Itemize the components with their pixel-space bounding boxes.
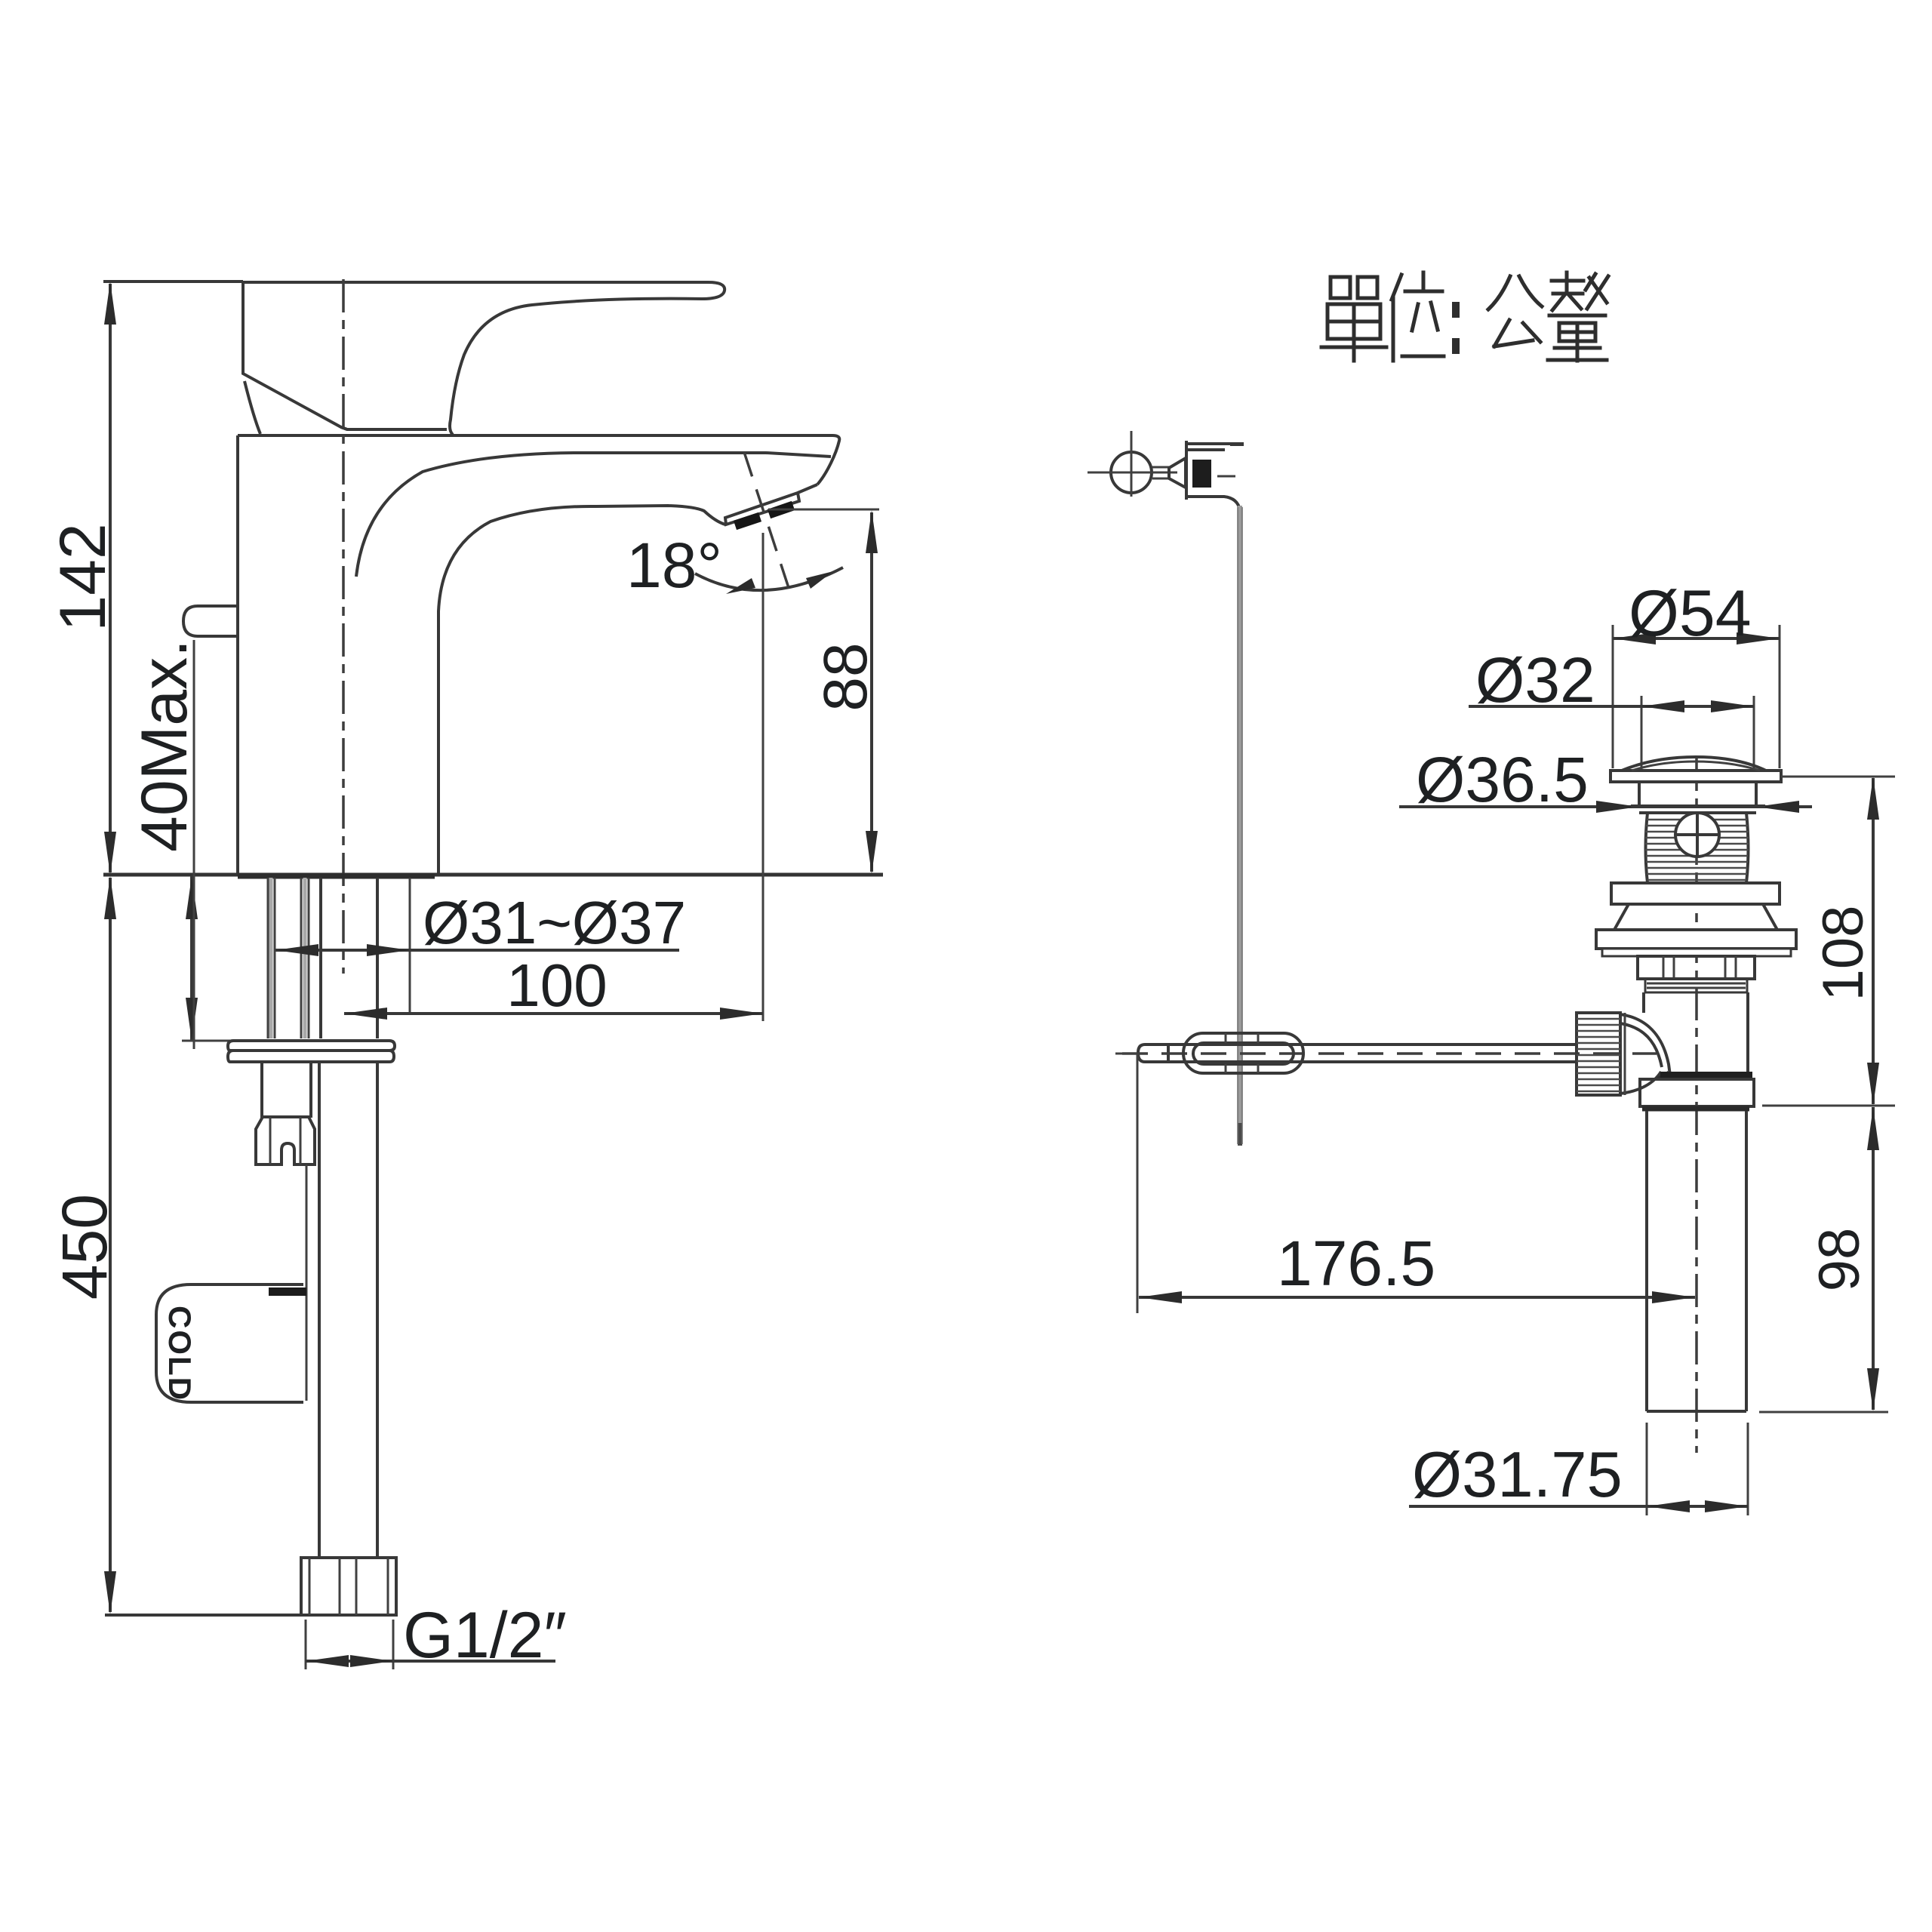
lever left edge and diagonal emphasized (243, 282, 347, 429)
cartridge dome arc under lever (245, 381, 260, 434)
svg-text:Ø36.5: Ø36.5 (1416, 744, 1589, 815)
drain neck (1639, 782, 1756, 806)
位 (1392, 275, 1401, 361)
Ø31.75 dimension line (1409, 1505, 1748, 1508)
pop-up cap dome (1622, 757, 1766, 771)
40Max tick at escutcheon level (182, 1040, 263, 1042)
Ø32 dimension line (1469, 705, 1754, 708)
tailpipe (1647, 1111, 1746, 1411)
dimension 142 arrow down (104, 832, 116, 875)
Ø31.75 arrow left (1647, 1500, 1690, 1512)
flange 2 (1611, 883, 1780, 904)
18 degree dimension arc (695, 568, 843, 590)
88 dimension line (870, 512, 873, 872)
counter / mounting surface line (103, 873, 883, 877)
G1/2 extension lines (306, 1620, 393, 1669)
svg-text:176.5: 176.5 (1277, 1228, 1435, 1299)
176.5 arrow left (1139, 1291, 1182, 1303)
knob crosshair (1088, 431, 1235, 497)
supply pipe walls (319, 1062, 377, 1558)
88 arrow down (866, 831, 878, 874)
G1/2 arrow left (306, 1655, 349, 1667)
公 (1488, 276, 1542, 309)
G1/2 dimension line (306, 1660, 555, 1663)
spout bevel face (798, 485, 817, 493)
svg-text:142: 142 (47, 523, 119, 632)
98 arrow up (1867, 1107, 1879, 1150)
Ø54 arrow left (1613, 632, 1656, 645)
knob stem (1152, 467, 1169, 478)
faucet base thick line (238, 874, 435, 879)
svg-text:Ø54: Ø54 (1629, 577, 1752, 650)
176.5 arrow right (1652, 1291, 1695, 1303)
108 top extension (1781, 776, 1895, 778)
tee bell housing (1620, 1014, 1670, 1094)
outlet projection extension line (762, 533, 764, 1021)
vertical lift rod (1238, 506, 1242, 1146)
Ø31~Ø37 arrow left (275, 944, 318, 956)
Ø31~Ø37 arrow right (367, 944, 410, 956)
176.5 dimension line (1139, 1296, 1695, 1299)
aerator outlet black slot (735, 506, 793, 525)
450 dimension line (109, 878, 112, 1612)
clevis ticks (1226, 1033, 1258, 1073)
18 deg arc arrow right (806, 571, 833, 589)
lift rod knob ball (1111, 452, 1152, 493)
100 dimension line (344, 1012, 763, 1015)
svg-text:98: 98 (1807, 1228, 1872, 1292)
main shank walls (321, 878, 377, 1038)
tee knurled nut (1577, 1013, 1620, 1095)
88 arrow up (866, 510, 878, 553)
stem cone (1169, 458, 1186, 488)
svg-text:18°: 18° (626, 530, 722, 601)
shank rod pair 2 (301, 878, 309, 1038)
Ø32 extension lines (1641, 696, 1754, 779)
coupling joint (1660, 1072, 1752, 1079)
ferrule black block (1192, 460, 1211, 488)
單 (1331, 277, 1377, 298)
Ø36.5 arrow right (pointing left) (1756, 801, 1799, 813)
svg-text:88: 88 (811, 642, 880, 711)
18 deg arc arrow left (726, 578, 755, 594)
mounting nut (256, 1117, 315, 1164)
釐 (1552, 272, 1583, 310)
screw head circle (1675, 813, 1719, 857)
dimension 142 arrow up (104, 281, 116, 325)
locknut (1638, 956, 1755, 979)
88 reference line at outlet (768, 509, 879, 511)
108 dimension line (1872, 778, 1875, 1104)
clevis slot (1193, 1043, 1294, 1064)
COLD tag (156, 1284, 303, 1402)
spout underside vertical to base (437, 717, 440, 875)
lever tail protrusion (183, 606, 238, 636)
100 arrow right (720, 1008, 763, 1020)
drain centerline (1695, 758, 1698, 1453)
Ø32 arrow right (1711, 700, 1754, 712)
svg-text:Ø32: Ø32 (1475, 645, 1595, 715)
450 arrow up (104, 876, 116, 919)
cord line along pipe (306, 1164, 308, 1401)
svg-text:Ø31~Ø37: Ø31~Ø37 (423, 889, 686, 956)
svg-text:100: 100 (506, 952, 607, 1019)
svg-text:108: 108 (1811, 906, 1875, 1001)
flange 3 wide (1596, 930, 1796, 949)
G1/2 connector nut (301, 1558, 396, 1615)
40Max arrow down (186, 998, 198, 1041)
176.5 extension line (1115, 1054, 1137, 1313)
98 arrow down (1867, 1368, 1879, 1411)
98 bottom tick (1759, 1411, 1888, 1414)
98 dimension line (1872, 1107, 1875, 1410)
right extension edge (escutcheon projection) (409, 878, 411, 1014)
450 arrow down (104, 1571, 116, 1614)
Ø54 extension lines (1613, 625, 1780, 768)
pull rod centerline (1122, 1052, 1657, 1055)
clevis outer (1183, 1033, 1303, 1073)
shank rod pair 1 (268, 878, 275, 1038)
108 arrow down (1867, 1063, 1879, 1106)
spout underside curve (438, 506, 725, 717)
Ø54 arrow right (1737, 632, 1780, 645)
horizontal pull rod left tip (1138, 1044, 1168, 1062)
cone skirt (1614, 904, 1777, 930)
Ø31.75 extension lines (1647, 1423, 1748, 1515)
40Max dimension line (190, 876, 193, 1041)
Ø54 dimension line (1613, 637, 1780, 640)
Ø36.5 arrow left (pointing right) (1596, 801, 1639, 813)
rod outline edges (1238, 507, 1242, 1144)
450 bottom reference line (105, 1614, 301, 1617)
pop-up cap flange (1611, 771, 1781, 782)
thread collar (1645, 979, 1747, 992)
Ø36.5 dimension line (1399, 805, 1812, 808)
body tube (1644, 992, 1748, 1075)
G1/2 arrow right (350, 1655, 393, 1667)
Ø31~Ø37 dimension line (275, 949, 679, 952)
100 arrow left (344, 1008, 387, 1020)
threaded mounting rod (262, 1062, 311, 1118)
inner top curve of spout (356, 453, 831, 577)
40Max extension line from lever tail (193, 640, 195, 1049)
threaded upper body (1646, 813, 1749, 883)
Ø31.75 arrow right (1705, 1500, 1748, 1512)
faucet centerline (342, 279, 345, 974)
svg-text:Ø31.75: Ø31.75 (1412, 1439, 1623, 1511)
svg-text:COLD: COLD (162, 1306, 198, 1401)
40Max arrow up (186, 876, 198, 919)
COLD tag cord wrap (269, 1287, 306, 1296)
escutcheon flange (228, 1041, 395, 1051)
svg-text:G1/2″: G1/2″ (403, 1599, 567, 1672)
mounting bracket (1186, 441, 1244, 510)
Ø32 arrow left (1641, 700, 1684, 712)
aerator slab (725, 493, 799, 525)
unit note text (hand drawn CJK) : 單位: 公釐 (1321, 272, 1608, 361)
extension line top (handle top level) (103, 280, 243, 283)
pull rod shaft (1168, 1044, 1577, 1062)
faucet lever handle (243, 282, 724, 435)
dimension 142 line (109, 284, 112, 872)
faucet body left edge (236, 435, 239, 875)
98 mid tick (1762, 1105, 1895, 1107)
svg-text:450: 450 (49, 1194, 120, 1300)
faucet body top (238, 435, 839, 485)
tilted outlet centerline (18 deg) (744, 452, 790, 592)
colon (1452, 306, 1460, 350)
108 arrow up (1867, 777, 1879, 820)
svg-text:40Max.: 40Max. (128, 639, 201, 852)
